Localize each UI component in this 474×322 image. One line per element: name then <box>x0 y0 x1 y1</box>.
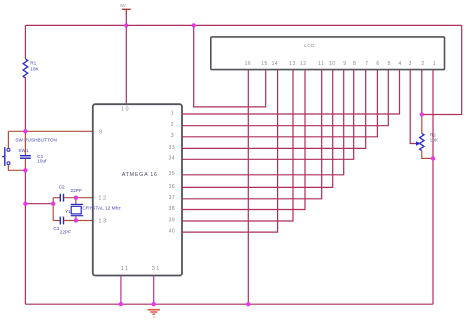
svg-text:7: 7 <box>365 61 368 67</box>
wire pin11 to ground rail <box>120 276 122 305</box>
svg-text:34: 34 <box>169 156 176 162</box>
junction R1 pin9 net <box>23 129 27 133</box>
svg-text:10uf: 10uf <box>37 159 47 164</box>
svg-text:22PF: 22PF <box>71 188 82 193</box>
svg-text:3: 3 <box>171 133 174 139</box>
svg-text:13: 13 <box>98 218 107 224</box>
crystal Y1 <box>71 198 83 221</box>
capacitor C1 <box>20 156 31 159</box>
wire pin12 net <box>64 197 93 199</box>
power symbol 5V <box>120 3 131 14</box>
wire pin13 net <box>64 220 93 222</box>
junction at 5V rail lcd15 branch <box>192 23 196 27</box>
wire atmega pin40 to lcd pin14 <box>182 70 278 233</box>
svg-text:11: 11 <box>318 61 324 67</box>
svg-text:9: 9 <box>99 129 104 135</box>
wire right vertical 5V drop <box>422 25 462 114</box>
wire C1 bottom lead <box>24 159 26 171</box>
svg-text:35: 35 <box>169 171 176 177</box>
svg-text:15: 15 <box>261 61 268 67</box>
svg-text:C2: C2 <box>59 184 65 189</box>
wire atmega pin35 to lcd pin9 <box>182 70 344 175</box>
wire R1 bottom to pin9 net <box>24 77 26 131</box>
wire pushbutton upper lead <box>7 131 9 148</box>
svg-text:ATMEGA 16: ATMEGA 16 <box>122 172 158 178</box>
wire pin31 to ground rail <box>153 276 155 305</box>
junction crystal link left rail <box>23 202 27 206</box>
svg-text:10: 10 <box>121 106 130 112</box>
wire left rail lower <box>24 170 26 304</box>
svg-text:10K: 10K <box>430 138 439 143</box>
wire 5V stem to top rail (pin10 net) <box>125 14 127 105</box>
wire atmega pin36 to lcd pin10 <box>182 70 333 188</box>
svg-text:1: 1 <box>171 110 174 116</box>
svg-text:8: 8 <box>353 61 356 67</box>
ground symbol <box>148 310 160 317</box>
wire atmega pin1 to lcd pin4 <box>182 70 400 114</box>
resistor R1 <box>23 59 28 78</box>
wire atmega pin2 to lcd pin5 <box>182 70 388 126</box>
arrow R2 wiper <box>416 141 421 146</box>
svg-text:12: 12 <box>300 61 307 67</box>
switch SW1 pushbutton <box>2 147 10 166</box>
capacitor C2 <box>60 194 63 202</box>
wire R2 top lead <box>421 115 423 134</box>
potentiometer R2 <box>420 133 424 150</box>
junction crystal top <box>74 196 78 200</box>
junction pin11 ground rail <box>119 302 123 306</box>
junction lcd16 ground rail <box>246 302 250 306</box>
svg-text:SW1: SW1 <box>18 148 29 153</box>
svg-text:6: 6 <box>376 61 379 67</box>
wire lcd pin16 to ground rail <box>247 70 249 305</box>
wire lcd pin1 to ground rail <box>432 70 434 305</box>
svg-text:CRYSTAL 12 Mhz: CRYSTAL 12 Mhz <box>82 205 121 210</box>
svg-text:22PF: 22PF <box>60 230 71 235</box>
svg-text:4: 4 <box>398 61 401 67</box>
wire left rail upper (to R1) <box>24 25 26 59</box>
wire lcd pin15 backlight to 5V rail <box>194 25 266 107</box>
svg-text:3: 3 <box>409 61 412 67</box>
wire C1 top lead <box>24 131 26 155</box>
svg-text:11: 11 <box>121 266 130 272</box>
wire pushbutton lower lead <box>8 165 25 170</box>
wire atmega pin37 to lcd pin11 <box>182 70 322 199</box>
wire atmega pin3 to lcd pin6 <box>182 70 377 137</box>
svg-text:16: 16 <box>245 61 252 67</box>
junction pin31 ground rail <box>152 302 156 306</box>
junction crystal bottom <box>74 218 78 222</box>
wire lcd pin3 contrast to R2 wiper <box>410 70 416 144</box>
svg-text:10K: 10K <box>30 67 39 72</box>
wire lcd pin2 vertical (5V net) <box>421 70 423 115</box>
svg-text:Y1: Y1 <box>65 209 71 214</box>
wire atmega pin34 to lcd pin8 <box>182 70 354 160</box>
svg-text:1: 1 <box>433 61 436 67</box>
op chip U1 ATMEGA16 body <box>93 104 182 275</box>
wire C3 left stub <box>53 220 60 222</box>
svg-text:39: 39 <box>169 217 176 223</box>
svg-text:SW PUSHBUTTON: SW PUSHBUTTON <box>15 137 57 142</box>
svg-text:38: 38 <box>169 206 176 212</box>
svg-text:37: 37 <box>169 195 176 201</box>
junction crystal link right <box>51 202 55 206</box>
wire C2/C3 left vertical <box>52 198 54 221</box>
svg-text:10: 10 <box>329 61 336 67</box>
junction C1 bottom left rail <box>23 168 27 172</box>
lcd display box <box>211 37 445 70</box>
svg-text:5V: 5V <box>120 3 126 8</box>
wire atmega pin33 to lcd pin7 <box>182 70 366 149</box>
wire crystal ground link <box>25 203 53 205</box>
wire bottom ground rail <box>25 303 433 305</box>
junction lcd pin2 5V <box>420 112 424 116</box>
svg-text:31: 31 <box>152 266 161 272</box>
wire R2 bottom lead to pin1 net <box>422 151 433 159</box>
svg-text:13: 13 <box>289 61 296 67</box>
wire C2 left stub <box>53 197 60 199</box>
svg-text:R1: R1 <box>30 61 36 66</box>
svg-text:33: 33 <box>169 145 176 151</box>
capacitor C3 <box>60 217 63 225</box>
svg-text:36: 36 <box>169 184 176 190</box>
junction at 5V rail pin10 <box>124 23 128 27</box>
wire top 5V rail <box>25 24 461 26</box>
svg-text:LCD: LCD <box>304 43 315 48</box>
wire atmega pin39 to lcd pin13 <box>182 70 293 221</box>
svg-text:2: 2 <box>421 61 424 67</box>
wire atmega pin38 to lcd pin12 <box>182 70 305 210</box>
svg-text:9: 9 <box>343 61 346 67</box>
wire pin9 net horizontal <box>8 130 92 132</box>
svg-text:14: 14 <box>272 61 279 67</box>
svg-text:40: 40 <box>169 228 176 234</box>
svg-text:5: 5 <box>388 61 391 67</box>
svg-text:12: 12 <box>98 196 107 202</box>
junction R2 bottom pin1 net <box>431 156 435 160</box>
svg-text:2: 2 <box>171 122 174 128</box>
